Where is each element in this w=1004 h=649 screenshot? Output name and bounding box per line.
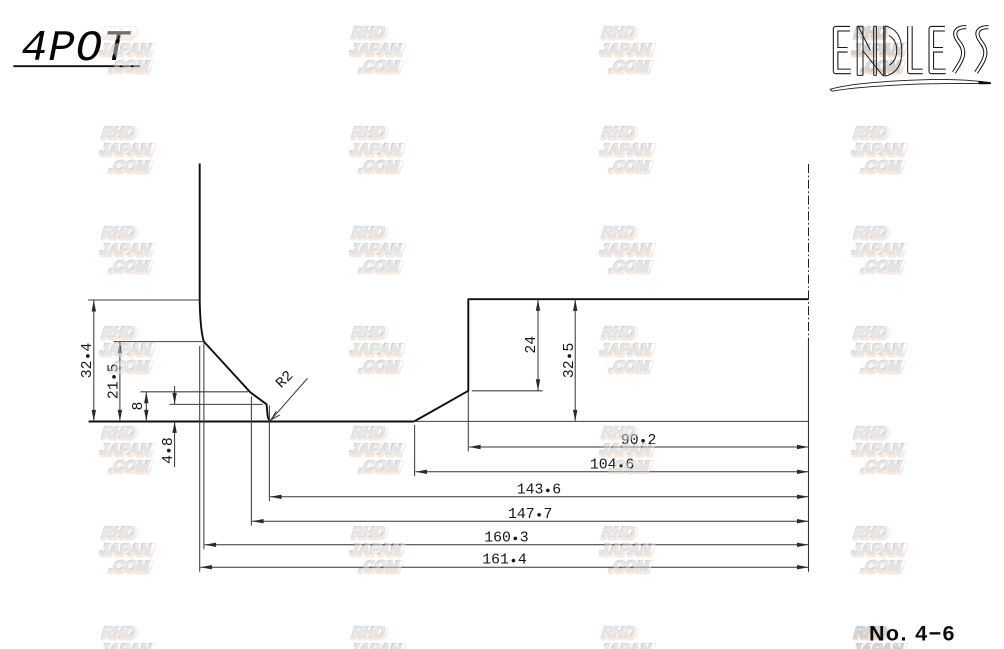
svg-text:RHD: RHD [351,326,388,343]
watermark block 10 [351,225,386,240]
svg-text:.COM: .COM [358,160,402,177]
svg-text:JAPAN: JAPAN [99,343,154,360]
watermark block 21 [101,525,136,540]
watermark block 27 [599,626,654,649]
watermark block 7 [601,125,636,140]
svg-text:JAPAN: JAPAN [99,243,154,260]
swoosh black tip [979,81,991,84]
watermark block 27 [601,625,636,640]
svg-text:JAPAN: JAPAN [599,43,654,60]
svg-text:.COM: .COM [108,160,152,177]
watermark block 13 [99,326,154,377]
watermark block 9 [101,225,136,240]
ENDLESS logo [830,26,990,91]
svg-text:RHD: RHD [101,326,138,343]
svg-text:JAPAN: JAPAN [599,343,654,360]
svg-text:RHD: RHD [101,626,138,643]
watermark block 4 [853,25,888,40]
watermark block 25 [101,625,136,640]
dim 90.2 line [469,446,808,448]
watermark block 24 [851,526,906,577]
watermark block 16 [853,325,888,340]
svg-text:JAPAN: JAPAN [599,243,654,260]
svg-text:RHD: RHD [853,426,890,443]
svg-text:.COM: .COM [860,460,904,477]
svg-text:RHD: RHD [853,526,890,543]
dim 8 line [145,392,147,422]
svg-text:.COM: .COM [608,60,652,77]
svg-text:.COM: .COM [608,460,652,477]
watermark block 3 [601,25,636,40]
letter E2 [931,29,945,72]
svg-text:RHD: RHD [101,426,138,443]
dim 143.6 line [270,496,808,498]
svg-text:JAPAN: JAPAN [851,343,906,360]
watermark block 8 [851,126,906,177]
svg-text:.COM: .COM [608,360,652,377]
watermark block 28 [853,625,888,640]
dim 24 line [537,299,539,391]
text 32.5 (rotated) [562,343,578,379]
watermark block 24 [853,525,888,540]
text R2 (rotated 45) [273,368,297,392]
svg-text:JAPAN: JAPAN [599,143,654,160]
svg-text:JAPAN: JAPAN [349,643,404,649]
svg-text:JAPAN: JAPAN [851,543,906,560]
dim 32.4 line [93,300,95,421]
watermark block 18 [351,425,386,440]
svg-text:JAPAN: JAPAN [99,543,154,560]
watermark block 23 [599,526,654,577]
No. 4-6 [869,622,956,646]
svg-text:JAPAN: JAPAN [99,143,154,160]
dim 147.7 line [252,520,808,522]
watermark block 15 [601,325,636,340]
svg-text:RHD: RHD [101,126,138,143]
svg-text:RHD: RHD [601,326,638,343]
text 90.2 [621,433,657,449]
letter E1 [836,29,851,72]
svg-text:RHD: RHD [853,326,890,343]
svg-text:.COM: .COM [860,560,904,577]
svg-text:RHD: RHD [101,526,138,543]
svg-text:RHD: RHD [853,126,890,143]
watermark block 9 [99,226,154,277]
watermark block 19 [601,425,636,440]
svg-text:.COM: .COM [108,60,152,77]
svg-text:RHD: RHD [351,26,388,43]
letter L [910,26,923,71]
title 4POT [21,24,132,74]
svg-text:JAPAN: JAPAN [599,643,654,649]
dimension texts [80,336,656,569]
watermark block 20 [853,425,888,440]
svg-text:JAPAN: JAPAN [599,443,654,460]
R2 leader open arrowhead [271,411,280,420]
svg-text:RHD: RHD [601,626,638,643]
svg-text:.COM: .COM [358,260,402,277]
text 32.4 (rotated) [80,343,96,379]
svg-text:JAPAN: JAPAN [349,543,404,560]
watermark block 4 [851,26,906,77]
svg-text:.COM: .COM [608,260,652,277]
svg-text:JAPAN: JAPAN [349,143,404,160]
text 147.7 [508,507,552,523]
text 24 (rotated) [524,336,540,354]
watermark block 23 [601,525,636,540]
svg-text:JAPAN: JAPAN [851,243,906,260]
svg-text:.COM: .COM [608,560,652,577]
svg-text:.COM: .COM [860,260,904,277]
watermark block 1 [99,26,154,77]
ENDLESS swoosh [830,79,990,91]
watermark block 18 [349,426,404,477]
watermark block 6 [351,125,386,140]
watermark block 12 [853,225,888,240]
svg-text:RHD: RHD [601,126,638,143]
svg-text:RHD: RHD [101,26,138,43]
svg-text:JAPAN: JAPAN [99,643,154,649]
watermark block 26 [351,625,386,640]
letter S2 [976,27,988,72]
letter N (with extended diagonal) [857,26,883,76]
dim 160.3 line [205,544,809,546]
watermark block 14 [351,325,386,340]
right step profile [414,299,809,421]
watermark block 15 [599,326,654,377]
watermark block 2 [351,25,386,40]
watermark block 17 [99,426,154,477]
dim 32.5 line [574,299,576,421]
watermark block 7 [599,126,654,177]
watermark block 5 [101,125,136,140]
svg-text:RHD: RHD [351,626,388,643]
svg-text:RHD: RHD [853,226,890,243]
watermark block 26 [349,626,404,649]
watermark block 3 [599,26,654,77]
watermark block 11 [601,225,636,240]
svg-text:.COM: .COM [358,560,402,577]
svg-text:.COM: .COM [860,360,904,377]
svg-text:RHD: RHD [101,226,138,243]
watermark block 17 [101,425,136,440]
watermark block 21 [99,526,154,577]
text 143.6 [517,482,561,498]
profile outline (part section) [89,164,809,422]
title underline [13,65,140,67]
svg-text:JAPAN: JAPAN [99,443,154,460]
extension lines [88,300,809,572]
text 104.6 [590,457,634,473]
watermark block 22 [349,526,404,577]
watermark block 2 [349,26,404,77]
svg-text:.COM: .COM [108,260,152,277]
svg-text:.COM: .COM [358,60,402,77]
text 21.5 (rotated) [106,364,122,400]
watermark block 14 [349,326,404,377]
text 8 (rotated) [131,402,147,411]
svg-text:RHD: RHD [601,26,638,43]
watermark block 25 [99,626,154,649]
dimension lines [94,299,809,567]
watermark block 22 [351,525,386,540]
watermark block 12 [851,226,906,277]
svg-text:.COM: .COM [608,160,652,177]
WATERMARKS [0,0,1004,1]
arrowheads [92,299,809,569]
letter D (bowl) [884,26,902,76]
dim 21.5 line [119,342,121,422]
svg-text:RHD: RHD [351,526,388,543]
svg-text:.COM: .COM [358,360,402,377]
svg-text:JAPAN: JAPAN [349,343,404,360]
svg-text:JAPAN: JAPAN [599,543,654,560]
svg-text:.COM: .COM [860,160,904,177]
bottom heavy line [89,421,414,423]
svg-text:RHD: RHD [351,126,388,143]
watermark block 19 [599,426,654,477]
watermark block 10 [349,226,404,277]
watermark block 20 [851,426,906,477]
watermark block 11 [599,226,654,277]
svg-text:JAPAN: JAPAN [349,443,404,460]
watermark block 13 [101,325,136,340]
watermark block 6 [349,126,404,177]
svg-text:RHD: RHD [601,526,638,543]
watermark block 28 [851,626,906,649]
R2 leader line [271,378,307,419]
svg-text:RHD: RHD [601,426,638,443]
watermark block 8 [853,125,888,140]
svg-text:.COM: .COM [108,360,152,377]
centerline (dash-dot) [808,164,810,340]
text 4.8 (rotated) [161,437,177,464]
svg-text:.COM: .COM [108,560,152,577]
svg-text:RHD: RHD [351,426,388,443]
svg-text:JAPAN: JAPAN [349,43,404,60]
dim 161.4 line [200,566,808,568]
svg-text:JAPAN: JAPAN [851,443,906,460]
text 161.4 [482,553,527,569]
svg-text:.COM: .COM [358,460,402,477]
letter S1 [954,27,966,72]
dim 4.8 lines [174,386,176,467]
watermark block 16 [851,326,906,377]
text 160.3 [484,530,528,546]
svg-text:JAPAN: JAPAN [349,243,404,260]
dim 104.6 line [416,471,809,473]
centerline extension (solid) [808,340,810,572]
svg-text:JAPAN: JAPAN [851,143,906,160]
svg-text:RHD: RHD [601,226,638,243]
watermark block 5 [99,126,154,177]
svg-text:JAPAN: JAPAN [99,43,154,60]
svg-text:RHD: RHD [351,226,388,243]
svg-text:.COM: .COM [108,460,152,477]
